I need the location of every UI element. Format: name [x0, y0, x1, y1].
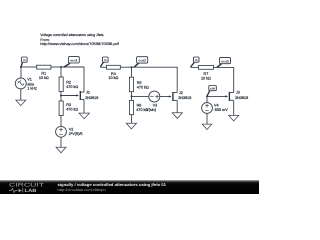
- V2 value label: [69, 128, 83, 137]
- svg-text:2N3819: 2N3819: [235, 96, 248, 100]
- node flag out2: [134, 57, 148, 68]
- svg-text:in: in: [195, 58, 198, 62]
- svg-text:R5: R5: [137, 81, 142, 85]
- node junction after R1: [60, 66, 62, 68]
- R1 value label: [39, 72, 49, 80]
- ground under V1: [16, 100, 26, 106]
- svg-text:2N3819: 2N3819: [178, 96, 191, 100]
- J3 value label: [235, 91, 248, 101]
- R5 value label: [137, 81, 149, 90]
- footer logo CIRCUITLAB: [9, 183, 45, 194]
- resistor R4: [100, 65, 131, 69]
- voltage source V4: [202, 96, 213, 113]
- wire junction to V3: [132, 95, 149, 97]
- node flag ctrl: [207, 86, 216, 96]
- footer bar: [0, 180, 259, 194]
- svg-text:10 kΩ: 10 kΩ: [201, 76, 211, 80]
- wire V1 top to R1: [21, 66, 37, 68]
- node junction at V1 top: [20, 66, 22, 68]
- V3 value label: [146, 104, 157, 112]
- svg-text:signally / voltage controlled: signally / voltage controlled attenuator…: [58, 182, 167, 187]
- voltage source V1 (sine): [15, 78, 26, 89]
- wire junction to gate J3: [207, 95, 228, 97]
- wire V2 to ground: [60, 137, 62, 147]
- node junction ctrl/V4: [206, 95, 208, 97]
- svg-text:470 kΩ: 470 kΩ: [136, 108, 148, 112]
- node flag out1: [64, 57, 80, 68]
- J1 value label: [85, 91, 98, 101]
- ground under V2: [56, 147, 66, 153]
- svg-text:From:: From:: [40, 38, 49, 42]
- ground under R6: [126, 123, 136, 129]
- svg-text:470 kΩ: 470 kΩ: [66, 85, 78, 89]
- node junction R2/R3 gate: [60, 95, 62, 97]
- voltage source V2: [56, 126, 67, 137]
- svg-text:ctrl: ctrl: [210, 87, 216, 91]
- svg-text:http://circuitlab.com/c8tkqm: http://circuitlab.com/c8tkqm: [58, 188, 106, 192]
- resistor R1: [37, 65, 61, 69]
- ground under J2: [172, 113, 182, 119]
- svg-text:J1: J1: [86, 91, 90, 95]
- wire corner to drain J3: [233, 67, 235, 92]
- svg-text:R3: R3: [66, 103, 71, 107]
- wire out node to drain corner: [61, 67, 84, 92]
- svg-text:470 kΩ: 470 kΩ: [66, 108, 78, 112]
- svg-text:-500 mV: -500 mV: [214, 108, 229, 112]
- svg-text:J2: J2: [179, 91, 183, 95]
- wire out2 node to drain corner: [132, 67, 178, 92]
- ground under J3: [229, 115, 239, 121]
- resistor R6: [129, 96, 133, 123]
- wire V3 to gate J2: [160, 95, 172, 97]
- node junction R5/R6: [131, 95, 133, 97]
- svg-text:out2: out2: [138, 59, 146, 63]
- svg-text:Voltage controlled attenuators: Voltage controlled attenuators using Jfe…: [40, 33, 104, 37]
- R2 value label: [66, 81, 78, 90]
- node flag in (C1): [21, 57, 27, 67]
- node flag out3: [217, 57, 231, 67]
- resistor R3: [59, 96, 63, 127]
- wire V1 to ground: [20, 89, 22, 100]
- svg-text:V1: V1: [27, 77, 32, 81]
- wire V4 to ground: [206, 113, 208, 124]
- svg-text:470 kΩ: 470 kΩ: [137, 85, 149, 89]
- svg-text:10 kΩ: 10 kΩ: [39, 76, 49, 80]
- R4 value label: [108, 72, 118, 80]
- svg-text:2*V(5)/5: 2*V(5)/5: [69, 132, 83, 136]
- svg-text:in: in: [23, 58, 26, 62]
- svg-text:out3: out3: [221, 59, 229, 63]
- svg-text:1 kHz: 1 kHz: [27, 87, 37, 91]
- wire gate J1: [61, 94, 79, 96]
- svg-text:http://www.vishay.com/docs/705: http://www.vishay.com/docs/70598/70598.p…: [40, 42, 119, 46]
- V4 value label: [214, 104, 229, 112]
- voltage source V3: [149, 91, 160, 102]
- node flag in (C3): [191, 57, 200, 67]
- ground under V4: [202, 124, 212, 130]
- ground under J1: [79, 113, 89, 119]
- svg-text:V2: V2: [69, 128, 74, 132]
- svg-text:LAB: LAB: [25, 188, 38, 193]
- resistor R2: [59, 67, 63, 96]
- svg-text:J3: J3: [236, 91, 240, 95]
- svg-text:2N3819: 2N3819: [85, 96, 98, 100]
- node flag in (C2): [100, 57, 108, 67]
- svg-text:R2: R2: [66, 81, 71, 85]
- svg-text:10 kΩ: 10 kΩ: [108, 76, 118, 80]
- resistor R5: [129, 67, 133, 96]
- transistor J1: [80, 91, 84, 113]
- R7 value label: [201, 72, 211, 80]
- J2 value label: [178, 91, 191, 100]
- transistor J2: [173, 92, 177, 113]
- svg-text:out1: out1: [70, 59, 78, 63]
- svg-text:in: in: [104, 58, 107, 62]
- title text block: [40, 33, 119, 46]
- V1 value label: [27, 77, 37, 90]
- resistor R7: [190, 65, 233, 69]
- R6 value label: [136, 104, 148, 112]
- node junction after R4: [131, 66, 133, 68]
- svg-text:V4: V4: [214, 104, 219, 108]
- transistor J3: [229, 92, 233, 116]
- wire V1 vertical: [20, 67, 22, 78]
- R3 value label: [66, 103, 78, 112]
